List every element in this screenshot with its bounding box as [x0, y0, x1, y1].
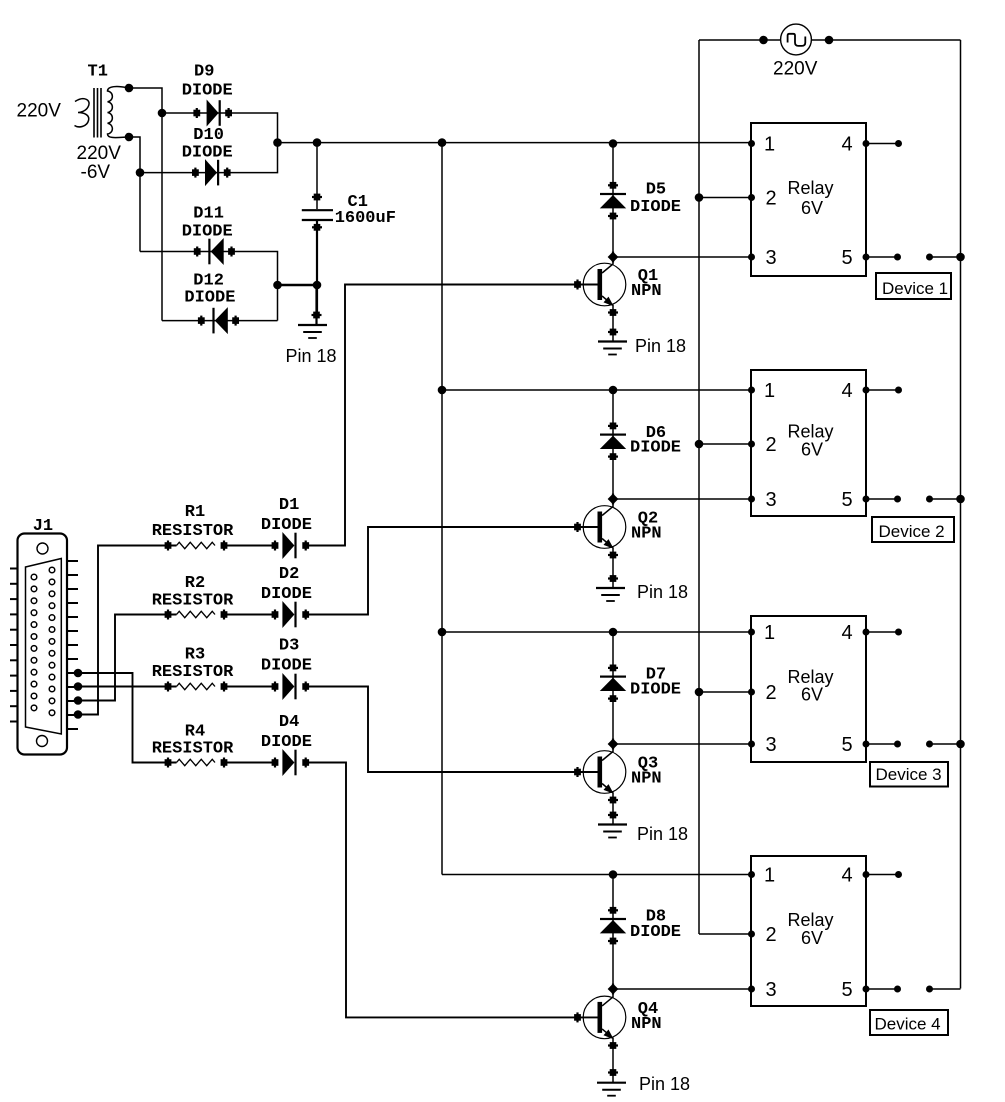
svg-text:Pin 18: Pin 18 — [639, 1074, 690, 1094]
svg-text:DIODE: DIODE — [182, 223, 233, 242]
svg-text:1600uF: 1600uF — [335, 209, 396, 228]
svg-text:D4: D4 — [279, 713, 299, 732]
diode D12 — [198, 307, 239, 334]
relay K4 labels — [788, 910, 834, 948]
diode D4 — [272, 749, 310, 776]
wire relay 4 pin 2 feed — [699, 933, 751, 935]
wire R3 to D3 — [224, 686, 275, 688]
svg-text:6V: 6V — [801, 198, 823, 218]
svg-text:3: 3 — [766, 979, 777, 1001]
relay K1 labels — [788, 178, 834, 218]
svg-text:D9: D9 — [194, 62, 214, 81]
node capacitor ground junction — [313, 281, 322, 290]
svg-text:6V: 6V — [801, 928, 823, 948]
wire D9 row to rectifier output — [162, 113, 278, 143]
svg-text:220V: 220V — [77, 143, 122, 164]
wire J1 pin B to R3 — [78, 686, 177, 688]
svg-text:Relay: Relay — [788, 178, 834, 198]
relay K2 box — [751, 370, 866, 516]
relay K2 contact pin 5 — [863, 496, 961, 503]
node J1 wire pin D — [74, 710, 83, 719]
node AC bus junction relay 2 pin 2 — [695, 440, 704, 449]
wire relay 4 pin 3 to driver — [613, 988, 751, 990]
J1 pin circles left column — [31, 574, 37, 711]
svg-text:Device 3: Device 3 — [876, 765, 942, 784]
node D9 anode junction — [158, 109, 167, 118]
svg-text:220V: 220V — [773, 59, 818, 80]
ground pin 18 Q2 — [596, 588, 625, 601]
diode D9 — [193, 100, 232, 127]
ground pin 18 Q1 — [598, 342, 627, 355]
svg-text:Pin 18: Pin 18 — [635, 336, 686, 356]
node C1 top junction — [313, 138, 322, 147]
relay K4 pin numbers — [764, 865, 853, 1002]
svg-text:D11: D11 — [193, 205, 224, 224]
svg-text:4: 4 — [842, 134, 853, 156]
svg-text:DIODE: DIODE — [261, 516, 312, 535]
svg-text:DIODE: DIODE — [630, 681, 681, 700]
node relay 4 pin 1 junction — [609, 870, 618, 879]
svg-text:RESISTOR: RESISTOR — [152, 740, 234, 759]
node AC source right terminal — [825, 36, 834, 45]
device 2 box — [872, 517, 954, 542]
node relay 2 pin 3 junction — [608, 494, 619, 505]
wire negative rail to capacitor ground — [278, 284, 318, 286]
diode D8 — [600, 875, 626, 990]
svg-text:5: 5 — [842, 247, 853, 269]
svg-text:RESISTOR: RESISTOR — [152, 522, 234, 541]
relay K4 contact pin 5 — [863, 986, 961, 993]
diode D7 — [600, 632, 626, 744]
wire relay 3 pin 2 feed — [699, 691, 751, 693]
node AC bus junction relay 3 pin 2 — [695, 688, 704, 697]
node J1 wire pin C — [74, 696, 83, 705]
J1 insert body — [26, 559, 62, 735]
svg-text:DIODE: DIODE — [261, 585, 312, 604]
svg-text:Device 4: Device 4 — [875, 1015, 941, 1034]
svg-text:Device 1: Device 1 — [882, 279, 948, 298]
relay K3 pin terminals — [748, 629, 755, 748]
relay K2 pin terminals — [748, 387, 755, 503]
svg-text:NPN: NPN — [631, 770, 662, 789]
J1 mounting hole bottom — [37, 736, 48, 747]
node AC return bus junction relay 1 — [956, 253, 965, 262]
wire relay 2 pin 1 feed — [442, 389, 751, 391]
svg-text:NPN: NPN — [631, 282, 662, 301]
svg-text:4: 4 — [842, 865, 853, 887]
diode D2 — [272, 601, 310, 628]
svg-text:D3: D3 — [279, 637, 299, 656]
device 3 box — [870, 762, 948, 787]
wire D10 row to rectifier output — [140, 143, 278, 173]
svg-text:2: 2 — [766, 188, 777, 210]
svg-text:DIODE: DIODE — [182, 144, 233, 163]
node relay 3 pin 1 junction — [609, 628, 618, 637]
svg-text:DIODE: DIODE — [630, 438, 681, 457]
svg-text:3: 3 — [766, 489, 777, 511]
svg-text:6V: 6V — [801, 440, 823, 460]
relay K4 pin terminals — [748, 871, 755, 993]
wire J1 pin C to R2 — [78, 615, 177, 701]
wire AC phase bus — [698, 40, 700, 934]
wire relay 3 pin 3 to driver — [613, 743, 751, 745]
diode D10 — [192, 159, 231, 186]
node relay 2 pin 1 junction — [609, 386, 618, 395]
svg-text:Pin 18: Pin 18 — [637, 582, 688, 602]
node V+ bus top junction — [438, 138, 447, 147]
transistor Q1 — [574, 257, 626, 313]
ground pin 18 under C1 — [298, 285, 327, 338]
wire relay 2 pin 2 feed — [699, 443, 751, 445]
node relay 1 pin 3 junction — [608, 252, 619, 263]
svg-text:Pin 18: Pin 18 — [637, 824, 688, 844]
resistor R4 — [165, 758, 228, 768]
relay K2 labels — [788, 422, 834, 460]
svg-text:D1: D1 — [279, 496, 299, 515]
wire R1 to D1 — [224, 545, 275, 547]
AC source 220V — [699, 24, 961, 55]
wire secondary bottom to D10/D11 vertical — [129, 137, 140, 252]
node rectifier positive output — [273, 138, 282, 147]
wire D3 to transistor base — [306, 687, 598, 773]
svg-text:3: 3 — [766, 734, 777, 756]
J1 left pin stubs — [10, 569, 18, 722]
relay K1 contact pin 5 — [863, 254, 961, 261]
relay K2 contact pin 4 — [863, 387, 903, 394]
node V+ bus junction relay 3 — [438, 628, 447, 637]
wire relay 2 pin 3 to driver — [613, 498, 751, 500]
relay K2 pin numbers — [764, 380, 853, 511]
wire J1 pin D to R1 — [78, 546, 177, 715]
svg-text:4: 4 — [842, 622, 853, 644]
wire D11 row to negative rail — [140, 252, 278, 321]
svg-text:D2: D2 — [279, 565, 299, 584]
svg-text:DIODE: DIODE — [184, 289, 235, 308]
svg-text:2: 2 — [766, 682, 777, 704]
node J1 wire pin B — [74, 682, 83, 691]
diode D3 — [272, 673, 310, 700]
svg-text:R1: R1 — [185, 503, 205, 522]
node D10 anode junction — [136, 168, 145, 177]
node relay 1 pin 1 junction — [609, 139, 618, 148]
node AC source left terminal — [759, 36, 768, 45]
svg-text:-6V: -6V — [81, 162, 111, 183]
wire positive rail to relay 1 pin 1 — [278, 142, 752, 144]
wire D4 to transistor base — [306, 763, 598, 1018]
node negative rail junction left — [273, 281, 282, 290]
svg-text:4: 4 — [842, 380, 853, 402]
transistor Q4 — [574, 990, 626, 1046]
relay K1 contact pin 4 — [863, 140, 903, 147]
svg-text:6V: 6V — [801, 685, 823, 705]
node transformer secondary bottom terminal — [125, 133, 134, 142]
relay K1 pin numbers — [764, 134, 853, 270]
wire Q1 emitter to ground — [612, 313, 614, 342]
resistor R3 — [165, 682, 228, 692]
node AC bus junction relay 1 pin 2 — [695, 193, 704, 202]
svg-text:RESISTOR: RESISTOR — [152, 663, 234, 682]
node transformer secondary top terminal — [125, 84, 134, 93]
node relay 4 pin 3 junction — [608, 984, 619, 995]
svg-text:Pin 18: Pin 18 — [286, 346, 337, 366]
wire AC return bus — [960, 40, 962, 989]
device 4 box — [870, 1010, 948, 1035]
relay K3 pin numbers — [764, 622, 853, 756]
wire Q3 emitter to ground — [612, 800, 614, 825]
relay K1 pin terminals — [748, 140, 755, 261]
ground pin 18 Q3 — [598, 825, 627, 838]
svg-text:DIODE: DIODE — [182, 81, 233, 100]
relay K4 box — [751, 856, 866, 1006]
wire relay 3 pin 1 feed — [442, 631, 751, 633]
svg-text:1: 1 — [764, 865, 775, 887]
wire relay 4 pin 1 feed — [442, 874, 751, 876]
diode D5 — [600, 144, 626, 258]
wire secondary top to D9/D12 vertical — [129, 88, 162, 321]
svg-text:DIODE: DIODE — [261, 733, 312, 752]
svg-text:NPN: NPN — [631, 525, 662, 544]
svg-text:1: 1 — [764, 134, 775, 156]
svg-text:3: 3 — [766, 247, 777, 269]
transistor Q3 — [574, 745, 626, 801]
relay K1 box — [751, 123, 866, 276]
connector J1 shell — [18, 534, 68, 755]
svg-text:D10: D10 — [193, 126, 224, 145]
wire R2 to D2 — [224, 614, 275, 616]
wire relay 1 pin 3 to driver — [613, 256, 751, 258]
svg-text:1: 1 — [764, 622, 775, 644]
svg-text:Device 2: Device 2 — [879, 522, 945, 541]
wire D1 to transistor base — [306, 285, 598, 546]
svg-text:J1: J1 — [33, 517, 53, 536]
svg-text:1: 1 — [764, 380, 775, 402]
svg-text:Relay: Relay — [788, 910, 834, 930]
node J1 wire pin A — [74, 669, 83, 678]
svg-text:5: 5 — [842, 489, 853, 511]
node AC return bus junction relay 2 — [956, 495, 965, 504]
device 1 box — [876, 273, 951, 299]
relay K3 box — [751, 616, 866, 762]
relay K3 contact pin 5 — [863, 741, 961, 748]
wire D12 row — [162, 320, 278, 322]
J1 right pin stubs — [67, 561, 78, 729]
resistor R2 — [165, 610, 228, 620]
resistor R1 — [165, 541, 228, 551]
transistor Q2 — [574, 500, 626, 556]
svg-text:D5: D5 — [646, 181, 666, 200]
svg-text:DIODE: DIODE — [630, 923, 681, 942]
transformer T1 — [75, 87, 130, 138]
wire relay 1 pin 2 feed — [699, 197, 751, 199]
relay K3 contact pin 4 — [863, 629, 903, 636]
J1 mounting hole top — [37, 543, 48, 554]
wire J1 pin A to R4 — [78, 673, 177, 763]
diode D11 — [194, 238, 235, 265]
wire Q4 emitter to ground — [612, 1046, 614, 1083]
ground pin 18 Q4 — [597, 1083, 626, 1096]
wire R4 to D4 — [224, 762, 275, 764]
node V+ bus junction relay 2 — [438, 386, 447, 395]
svg-text:R3: R3 — [185, 646, 205, 665]
diode D1 — [272, 532, 310, 559]
wire main V+ bus — [441, 143, 443, 875]
svg-text:NPN: NPN — [631, 1015, 662, 1034]
svg-text:2: 2 — [766, 924, 777, 946]
svg-text:Relay: Relay — [788, 422, 834, 442]
wire Q2 emitter to ground — [612, 555, 614, 588]
J1 pin circles right column — [49, 567, 55, 715]
svg-text:DIODE: DIODE — [630, 198, 681, 217]
svg-text:220V: 220V — [17, 101, 62, 122]
svg-text:T1: T1 — [88, 63, 108, 82]
svg-text:RESISTOR: RESISTOR — [152, 592, 234, 611]
relay K4 contact pin 4 — [863, 871, 903, 878]
svg-text:5: 5 — [842, 979, 853, 1001]
diode D6 — [600, 390, 626, 499]
capacitor C1 — [302, 143, 333, 315]
node AC return bus junction relay 3 — [956, 740, 965, 749]
svg-text:R2: R2 — [185, 574, 205, 593]
svg-text:5: 5 — [842, 734, 853, 756]
wire D2 to transistor base — [306, 527, 598, 615]
svg-text:2: 2 — [766, 434, 777, 456]
node relay 3 pin 3 junction — [608, 739, 619, 750]
relay K3 labels — [788, 667, 834, 705]
svg-text:DIODE: DIODE — [261, 657, 312, 676]
